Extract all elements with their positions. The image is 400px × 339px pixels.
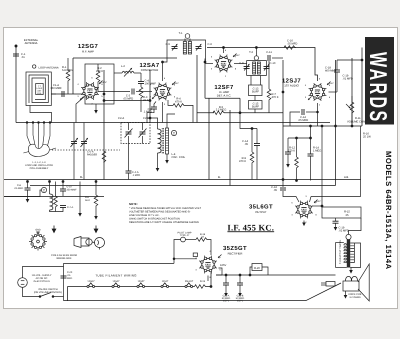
svg-text:CONVERTER: CONVERTER [141,68,159,72]
svg-text:.1 MFD: .1 MFD [132,174,140,177]
svg-text:B-: B- [218,176,221,179]
power cord loop [23,267,64,278]
wire osc coil bottom leads + grounds [157,153,159,168]
ground below T3 [350,268,352,271]
wire x=283 vertical [282,60,284,180]
voltage arrow 12SA7 osc grid [152,96,156,100]
electrolytic C21-A [223,283,229,285]
svg-text:C-5: C-5 [166,43,171,46]
loop antenna L1 [26,65,56,123]
voltage arrow 35Z5 cathode [218,255,222,259]
svg-text:3.2 OHMS: 3.2 OHMS [349,296,361,299]
trimmer C5 [172,47,178,49]
svg-text:COIL ASSEMBLY: COIL ASSEMBLY [30,167,49,170]
voltage arrow 35L6 plate [314,200,318,204]
resistor R12 (vertical) [296,138,298,157]
tuning gang dashed box [121,123,150,144]
svg-text:LOOP ANTENNA: LOOP ANTENNA [39,66,59,69]
wire gang leads [128,123,130,131]
svg-text:165V: 165V [220,264,226,267]
wire secondary bus y=185.5 [30,185,336,187]
transformer T3 output [344,234,355,267]
trimmer C6 [196,47,202,49]
loop exit right to grid [51,93,56,95]
wire x=315.7 screen feed [321,126,323,206]
resistor R9 (vertical) [251,129,253,153]
WARDS banner [364,37,394,125]
resistor R5 AVC [213,111,225,115]
svg-text:.05 MFD: .05 MFD [14,187,23,190]
wire 12SG7 plate line y=58 [73,57,177,59]
svg-text:R-19: R-19 [200,280,206,283]
voltage arrow 12SA7 plate [172,82,176,86]
wire main B- bus y=179.5 [4,179,361,181]
svg-text:350 MMF: 350 MMF [67,189,78,192]
wire x=197 vertical [196,55,198,123]
junction dots grid zone [296,137,298,139]
svg-text:350 MMF: 350 MMF [50,87,62,90]
circled T (chassis) [41,187,46,192]
ground symbol above socket [36,232,40,235]
svg-text:T-2: T-2 [249,51,253,54]
junction dots left column [103,93,105,95]
variable capacitor C2-B [139,129,147,138]
voltage arrow 12SG7 plate [99,81,103,85]
svg-text:C-7-A: C-7-A [67,206,74,209]
wire box bottom to bus [95,104,97,110]
wire AVC line y=112.7 [197,112,214,114]
plug circle [18,278,28,288]
svg-text:.05: .05 [244,143,248,146]
svg-text:(ON VOLUME CONTROL): (ON VOLUME CONTROL) [34,291,62,294]
svg-text:12SF7: 12SF7 [138,280,145,283]
wire y=128.5 link [240,113,257,129]
svg-text:PADDER: PADDER [87,154,97,157]
capacitor C8 cathode [154,102,156,108]
svg-text:RECTIFIER: RECTIFIER [228,252,243,256]
wire lower-left bus y=196.5 [4,196,104,198]
assembly leads [27,123,31,146]
junction dots audio [361,59,363,61]
capacitor C20 line filter [61,276,67,278]
wire x=209 vertical [208,98,210,179]
coil L2 RF (horizontal w/ arrow) [114,68,141,77]
wire C11 [266,57,268,59]
tube 35L6GT [295,201,313,219]
filter resistor R20 box [250,267,252,275]
wire plate supply y=98.3 [205,97,240,99]
wire bottom join [50,208,64,212]
circled T (gang) [171,130,176,135]
ground below 35L6 [303,221,305,223]
junction dots rect [225,274,227,276]
svg-text:B-: B- [80,175,83,179]
pin numbers [150,77,176,106]
wire T1 left lead down [163,57,168,82]
pot wiper arrow R11 [346,104,350,108]
resistor R5A on x=104 [102,151,106,163]
wire T3 primary left loop [336,242,344,244]
voltage arrow 12SG7 cathode [80,97,84,101]
svg-text:C-9: C-9 [239,62,244,65]
capacitor C11 (diode load) [268,55,270,61]
padder capacitor C6 [73,123,75,142]
capacitor C1-A [62,91,64,97]
svg-text:C2-A: C2-A [118,117,124,120]
svg-text:C-6: C-6 [208,43,213,46]
trimmer C10 [264,67,270,69]
svg-text:.01: .01 [21,56,25,59]
resistor R2 osc grid [139,87,143,99]
wire antenna vertical x=16 [15,46,17,123]
tube 12SA7 [154,83,172,101]
wire pilot lamp loop [185,239,196,241]
capacitor C13A w/ ground [287,138,289,152]
svg-text:.05 MFD: .05 MFD [287,43,297,46]
speaker cone [358,264,369,301]
svg-text:GND: GND [35,229,41,232]
svg-text:400 MMF: 400 MMF [325,70,337,73]
svg-text:470 K: 470 K [272,96,279,99]
voltage arrow 12SJ7 cathode [308,97,312,101]
svg-text:470 K: 470 K [175,101,182,104]
svg-text:22 K: 22 K [143,99,149,102]
wire 12SJ7 plate to C17 [329,91,338,93]
svg-text:TYPE 47: TYPE 47 [180,234,190,237]
svg-text:OSC. COIL: OSC. COIL [172,156,186,159]
svg-text:TUBE FILAMENT WIRING: TUBE FILAMENT WIRING [95,274,137,278]
wire bottom line y=301 [64,300,307,302]
dial lamp assembly [74,237,105,250]
svg-text:WARDS: WARDS [364,52,390,124]
node antenna terminal [15,45,17,47]
wire filament rise to rectifier [207,273,212,287]
tube 12SJ7 [309,83,327,101]
svg-text:100V*: 100V* [101,81,107,84]
wire heater return y=266.6 [64,262,175,264]
capacitor C17 plate blocking [334,70,340,72]
wire AVC bus y=122.5 [16,122,330,124]
wire osc coil top leads [150,118,158,129]
svg-text:12SJ7: 12SJ7 [162,280,169,283]
wire B+ to output transformer [349,218,362,236]
dashed gang coupling line [52,149,120,151]
ground below 12SG7 box [94,110,98,114]
svg-text:150 V: 150 V [223,300,230,303]
svg-text:RESISTORS ARE 1/2 WATT UNLESS: RESISTORS ARE 1/2 WATT UNLESS OTHERWISE … [129,221,199,224]
wire filament row [68,286,195,288]
wire 12SA7 cathode down [162,102,164,123]
capacitor C14 [256,129,258,144]
resistor R18 [196,238,208,242]
coil L6 detector [50,194,53,210]
voltage arrow 12SJ7 plate [327,82,331,86]
wire R4 leads [168,100,173,105]
resistor R2 inside box [96,71,100,83]
svg-text:35L6GT: 35L6GT [185,280,194,283]
wire R1 leads [67,58,69,70]
svg-text:OUTPUT: OUTPUT [255,210,267,214]
note arrow left [52,226,56,233]
svg-text:45V*: 45V* [329,82,334,85]
wire x=362 right bus vertical [361,48,363,127]
wire to rectifier heater pin [174,258,197,260]
circled P1 [33,65,36,68]
resistor R15 cathode box [322,207,361,218]
svg-text:100 MMF: 100 MMF [145,83,157,86]
svg-text:ANTENNA: ANTENNA [25,42,38,45]
coil assembly L2 (bottom view) [23,122,56,157]
svg-text:56 K: 56 K [85,199,90,202]
svg-text:.05 MFD: .05 MFD [123,98,133,101]
pin 6 square [193,253,197,257]
svg-text:T-1: T-1 [179,32,183,35]
svg-text:12SA7: 12SA7 [113,280,121,283]
wire x=73 vertical [72,58,74,94]
socket bottom view [29,233,47,251]
tube 12SF7 [215,55,233,73]
electrolytic C21-B [237,283,243,285]
trimmer C9 [244,67,250,69]
junction dots IF [282,91,284,93]
svg-text:.01 MFD: .01 MFD [343,78,353,81]
osc coil L3/L4 [158,128,169,154]
loop exit bottom [30,106,52,123]
resistor R19 filament [195,285,207,289]
ground below voice coil [345,291,347,295]
potentiometer R11 volume [350,102,354,114]
wire antenna input y=94 [51,93,83,95]
wire boxes chain [254,96,256,101]
transformer T2 (2nd IF) [244,56,270,76]
transformer T1 (1st IF) [167,34,206,57]
output connector [326,282,335,287]
pin numbers [211,49,237,78]
wire rect plate [207,276,209,282]
wire T2 top lead [255,48,257,56]
pin numbers [195,250,221,279]
wire x=335.5 long vertical [335,60,337,186]
tube 35Z5GT [199,256,217,274]
resistor R8 inline on top wire [284,46,296,50]
terminal box inside loop [36,84,44,95]
svg-text:VOLUME CONT.: VOLUME CONT. [347,121,367,124]
junction dots converter [149,100,151,102]
switch S1 [40,293,51,297]
svg-text:.02 MFD: .02 MFD [339,230,349,233]
wire T1 right lead down [204,57,207,63]
svg-text:L-2: L-2 [121,65,125,68]
svg-text:470 K: 470 K [96,70,103,73]
pin numbers [77,77,103,106]
wire y=138 link [288,137,311,139]
svg-text:I.F. 455 KC.: I.F. 455 KC. [227,222,274,232]
tube 12SG7 [81,82,99,100]
svg-text:MODELS 64BR-1513A, 1514A: MODELS 64BR-1513A, 1514A [384,151,393,270]
note arrow right [94,226,98,233]
wire x=80 ground drop [79,182,81,214]
wire 12SG7 cathode drop [76,97,85,123]
capacitor C10 on x=63 [62,182,64,190]
svg-text:95V*: 95V* [235,54,240,57]
wire bus y=126 right section [283,125,362,127]
svg-text:2.2 MEG: 2.2 MEG [216,109,227,112]
wire 12SF7 plate to T2 [234,63,247,65]
svg-text:C-11: C-11 [266,51,272,54]
svg-text:1 MEG: 1 MEG [313,150,321,153]
wire speaker diagonal [306,283,341,301]
svg-text:MFD: MFD [67,277,72,280]
svg-text:BUFF: BUFF [252,106,259,109]
resistor R4 screen [173,104,185,108]
svg-text:T-3 OUTPUT TRANS.: T-3 OUTPUT TRANS. [339,239,342,264]
wire filament left drop [67,287,69,301]
svg-text:25-60 CYCLES: 25-60 CYCLES [33,280,50,283]
wire x=141 osc grid column [140,73,142,82]
svg-text:BUFF: BUFF [252,91,259,94]
svg-text:DET. A.V.C.: DET. A.V.C. [217,94,232,98]
wire x=104 vertical [103,70,105,180]
wire 12SJ7 plate to top [337,59,362,61]
wire x=205 vertical (T1 return) [204,59,206,99]
pilot lamp circle [181,237,186,242]
component box C13 [249,85,263,96]
wire T3 secondary right [350,243,360,268]
capacitor C4-A below gang [128,144,130,172]
resistor R7 (vertical) [268,61,270,89]
wire T2 bottom leads [250,76,252,86]
svg-text:470 K: 470 K [239,160,246,163]
svg-text:150 V: 150 V [237,300,244,303]
wire C3 [98,91,131,93]
padder capacitor C6-A [83,123,85,142]
pin numbers [305,78,331,107]
wire step to circled T [4,190,41,197]
resistor R1 (vertical, left of box) [66,70,70,82]
capacitor C8 (below bus) [27,182,29,189]
variable capacitor C2-A [125,129,133,138]
svg-text:C-10: C-10 [270,62,276,65]
wire x=352 vertical (volume feed) [351,58,353,126]
svg-text:270 K: 270 K [288,150,295,153]
svg-text:.05 MFD: .05 MFD [298,119,308,122]
capacitor C7-A [60,206,66,208]
svg-text:.1 MFD: .1 MFD [143,111,152,114]
capacitor C14A bypass [302,109,304,115]
pin numbers [291,195,317,224]
svg-text:25: 25 [346,214,349,217]
svg-text:C2-B: C2-B [143,117,149,120]
wire x=230 vertical [229,110,231,186]
resistor R6 at x=96 [95,182,97,196]
svg-text:NOTE:: NOTE: [129,202,138,206]
svg-text:R-20: R-20 [254,267,260,270]
svg-text:95V*: 95V* [174,82,179,85]
svg-text:A.B: A.B [344,176,349,179]
svg-text:6.8 MEG: 6.8 MEG [62,69,73,72]
svg-text:1ST AUDIO: 1ST AUDIO [284,83,299,87]
capacitor C3 coupling [132,89,134,95]
resistor R5 detector [54,196,58,208]
wire top coupling line y=47.5 [207,48,318,82]
wire lamp left branch [174,240,181,264]
wire B+ bus y=275 [216,274,336,276]
voice coil [343,277,359,292]
wire x=150 vertical osc grid [149,70,151,123]
svg-text:.05: .05 [273,189,277,192]
wire plate to box [312,205,322,207]
svg-text:25 1W: 25 1W [363,136,371,139]
svg-text:90V*: 90V* [316,200,321,203]
wire rect cathode to B+ bus [219,268,223,275]
wire osc line y=100.5 [104,100,150,102]
wire x=240 vertical [239,98,241,112]
capacitor C16 coupling [280,188,286,190]
voltage arrow 12SF7 plate [233,54,237,58]
svg-text:R.F. AMP: R.F. AMP [82,50,94,54]
junction dots det [27,181,29,183]
capacitor C1 [13,54,19,56]
capacitor C15 on x=310.5 [310,126,312,154]
svg-text:12SG7: 12SG7 [87,280,95,283]
wire 35L6 grid from bus [282,180,284,188]
capacitor C18 tone w/ ground [335,218,337,221]
12SG7 grid network box [85,64,114,104]
component box C15 [249,101,263,110]
svg-text:WIRING SIDE: WIRING SIDE [56,257,72,260]
filament bumps [87,283,95,288]
wire 12SJ7 cathode down [317,103,319,126]
